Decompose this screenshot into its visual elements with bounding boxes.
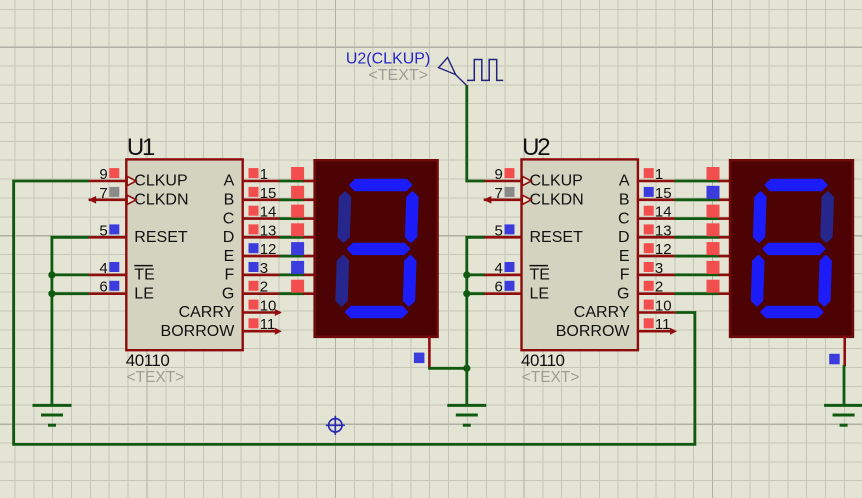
pin 1 state indicator (U2) [644, 168, 654, 178]
pin 5 stub (U1 left) [89, 236, 128, 239]
svg-text:LE: LE [134, 285, 154, 302]
wire pin 14 to display segment (U2) [674, 217, 719, 220]
pin 2 stub (U2 right) [637, 292, 676, 295]
IC U2 40110 counter [522, 159, 638, 350]
wire: U2 display common to ground [843, 365, 846, 405]
pin 6 stub (U2 left) [484, 292, 523, 295]
display pin stub row 12 (U1) [303, 255, 316, 258]
pin 7 stub (U1 left) [89, 199, 128, 202]
svg-text:TE: TE [530, 267, 550, 284]
svg-text:C: C [618, 210, 630, 227]
clock generator U2(CLKUP) symbol [439, 58, 456, 75]
pin 12 state indicator (U1) [249, 243, 259, 253]
pin 2 state indicator (U1) [249, 281, 259, 291]
wire: U1 RESET/TE/LE ground bus [52, 237, 89, 405]
svg-text:CLKDN: CLKDN [530, 192, 584, 209]
segment g (U1 digit 3) [349, 244, 409, 254]
junction display common [463, 365, 470, 372]
pin 13 state indicator (U1) [249, 224, 259, 234]
svg-text:11: 11 [260, 316, 276, 333]
junction U2 TE [463, 271, 470, 278]
svg-text:15: 15 [260, 185, 277, 202]
display pin stub row 13 (U2) [719, 236, 732, 239]
svg-text:6: 6 [99, 279, 107, 296]
pin 15 state indicator (U1) [249, 187, 259, 197]
svg-text:4: 4 [495, 260, 503, 277]
display pin indicator row 3 (U2) [707, 261, 720, 274]
junction U2 LE [463, 290, 470, 297]
svg-text:B: B [619, 192, 630, 209]
svg-text:13: 13 [655, 222, 672, 239]
svg-text:40110: 40110 [521, 351, 565, 370]
svg-text:2: 2 [260, 279, 268, 296]
pin 13 state indicator (U2) [644, 224, 654, 234]
pin 7 stub (U2 left) [484, 199, 523, 202]
svg-text:13: 13 [260, 222, 277, 239]
pin 4 stub (U2 left) [484, 274, 523, 277]
pin 4 state indicator (U2) [505, 262, 515, 272]
pin 11 state indicator (U1) [249, 318, 259, 328]
display pin stub row 3 (U2) [719, 274, 732, 277]
display pin indicator row 13 (U2) [707, 223, 720, 236]
display pin indicator row 15 (U2) [707, 186, 720, 199]
indicator U1 display common [414, 353, 425, 364]
display pin indicator row 14 (U1) [291, 205, 304, 218]
svg-text:RESET: RESET [530, 229, 584, 246]
display pin stub row 1 (U1) [303, 180, 316, 183]
pin 3 stub (U1 right) [242, 274, 281, 277]
svg-text:CARRY: CARRY [179, 304, 235, 321]
indicator U2 display common [829, 354, 840, 365]
clock waveform icon [467, 60, 503, 81]
display pin indicator row 2 (U2) [707, 280, 720, 293]
display pin indicator row 1 (U1) [291, 167, 304, 180]
svg-text:14: 14 [260, 204, 277, 221]
svg-text:9: 9 [495, 166, 503, 183]
wire pin 15 to display segment (U1) [279, 198, 304, 201]
segment b (U1 digit 3) [406, 193, 417, 242]
svg-text:15: 15 [655, 185, 672, 202]
wire pin 14 to display segment (U1) [279, 217, 304, 220]
svg-text:G: G [222, 285, 234, 302]
svg-text:3: 3 [655, 260, 663, 277]
wire: U1 display common cathode stub [428, 336, 431, 369]
clock input marker CLKUP (U1) [127, 176, 136, 185]
svg-text:1: 1 [655, 166, 663, 183]
svg-text:2: 2 [655, 279, 663, 296]
pin 1 stub (U2 right) [637, 180, 676, 183]
pin 15 stub (U1 right) [242, 199, 281, 202]
svg-text:14: 14 [655, 204, 672, 221]
svg-text:10: 10 [260, 298, 277, 315]
pin 6 state indicator (U2) [505, 281, 515, 291]
svg-text:6: 6 [495, 279, 503, 296]
svg-text:3: 3 [260, 260, 268, 277]
segment c (U2 digit 6) [820, 256, 831, 305]
U1 pin 10 unconnected arrow [275, 309, 282, 316]
wire pin 13 to display segment (U1) [279, 236, 304, 239]
wire: U2 TE branch [467, 273, 485, 276]
pin 11 state indicator (U2) [644, 318, 654, 328]
segment d (U2 digit 6) [762, 307, 822, 317]
segment b (U2 digit 6) [822, 193, 833, 242]
svg-text:RESET: RESET [134, 229, 188, 246]
junction U1 TE [48, 271, 55, 278]
pin 3 state indicator (U2) [644, 262, 654, 272]
display pin stub row 14 (U2) [719, 217, 732, 220]
pin 9 state indicator (U2) [505, 168, 515, 178]
wire: clock to U2 CLKUP [467, 85, 485, 181]
display pin indicator row 12 (U2) [707, 242, 720, 255]
svg-text:1: 1 [260, 166, 268, 183]
pin 2 state indicator (U2) [644, 281, 654, 291]
pin 1 stub (U1 right) [242, 180, 281, 183]
display pin indicator row 13 (U1) [291, 223, 304, 236]
IC U1 40110 counter [126, 159, 242, 350]
svg-text:D: D [618, 229, 630, 246]
wire pin 3 to display segment (U1) [279, 273, 304, 276]
svg-text:G: G [617, 285, 629, 302]
wire pin 13 to display segment (U2) [674, 236, 719, 239]
pin 14 stub (U2 right) [637, 217, 676, 220]
display pin stub row 1 (U2) [719, 180, 732, 183]
svg-text:<TEXT>: <TEXT> [522, 369, 580, 386]
display pin stub row 12 (U2) [719, 255, 732, 258]
svg-text:TE: TE [134, 267, 154, 284]
pin 14 state indicator (U2) [644, 206, 654, 216]
pin 10 stub (U2 right) [637, 311, 676, 314]
pin 5 stub (U2 left) [484, 236, 523, 239]
wire: U1 TE branch [52, 273, 89, 276]
pin 14 state indicator (U1) [249, 206, 259, 216]
display pin stub row 3 (U1) [303, 274, 316, 277]
pin 7 unconnected arrow (U1) [88, 196, 96, 204]
display pin indicator row 15 (U1) [291, 186, 304, 199]
pin 14 stub (U1 right) [242, 217, 281, 220]
U2 pin 11 unconnected arrow [670, 328, 677, 335]
pin 12 stub (U1 right) [242, 255, 281, 258]
display pin stub row 15 (U1) [303, 199, 316, 202]
svg-text:CLKUP: CLKUP [530, 173, 583, 190]
svg-text:U1: U1 [127, 134, 155, 161]
pin 15 stub (U2 right) [637, 199, 676, 202]
pin 1 state indicator (U1) [249, 168, 259, 178]
wire pin 2 to display segment (U2) [674, 292, 719, 295]
wire pin 1 to display segment (U1) [279, 180, 304, 183]
svg-text:11: 11 [655, 316, 671, 333]
segment a (U1 digit 3) [351, 180, 411, 190]
svg-text:CLKUP: CLKUP [134, 173, 187, 190]
display pin indicator row 1 (U2) [707, 167, 720, 180]
svg-text:E: E [224, 248, 235, 265]
svg-text:CLKDN: CLKDN [134, 192, 188, 209]
segment f (U1 digit 3) [339, 193, 350, 242]
pin 7 state indicator (U1) [109, 187, 119, 197]
ground mid [447, 405, 486, 425]
pin 13 stub (U1 right) [242, 236, 281, 239]
svg-text:A: A [619, 173, 630, 190]
display pin indicator row 2 (U1) [291, 280, 304, 293]
pin 11 stub (U2 right) [637, 330, 675, 333]
pin 6 stub (U1 left) [89, 292, 128, 295]
display pin indicator row 12 (U1) [291, 242, 304, 255]
svg-text:LE: LE [530, 285, 550, 302]
pin 9 stub (U1 left) [89, 180, 128, 183]
pin 5 state indicator (U1) [109, 224, 119, 234]
U1 pin 11 unconnected arrow [275, 328, 282, 335]
wire pin 12 to display segment (U1) [279, 255, 304, 258]
wire: U2 CARRY to U1 CLKUP feedback loop [14, 181, 695, 444]
svg-text:<TEXT>: <TEXT> [368, 67, 428, 84]
wire pin 2 to display segment (U1) [279, 292, 304, 295]
svg-text:40110: 40110 [126, 351, 170, 370]
display pin stub row 2 (U1) [303, 292, 316, 295]
svg-text:<TEXT>: <TEXT> [127, 369, 185, 386]
pin 15 state indicator (U2) [644, 187, 654, 197]
wire: U2 RESET/TE/LE ground bus [467, 237, 485, 405]
wire: U2 display common cathode stub [843, 336, 846, 367]
pin 2 stub (U1 right) [242, 292, 281, 295]
svg-text:9: 9 [99, 166, 107, 183]
svg-text:12: 12 [260, 241, 277, 258]
svg-text:7: 7 [99, 185, 107, 202]
pin 12 stub (U2 right) [637, 255, 676, 258]
segment g (U2 digit 6) [764, 244, 824, 254]
segment f (U2 digit 6) [754, 193, 765, 242]
svg-text:D: D [223, 229, 235, 246]
clock input marker CLKDN (U1) [127, 195, 136, 204]
wire: U1 display common to ground bus [428, 367, 467, 370]
segment c (U1 digit 3) [404, 256, 415, 305]
junction U1 LE [48, 290, 55, 297]
pin 9 state indicator (U1) [109, 168, 119, 178]
clock input marker CLKUP (U2) [522, 176, 531, 185]
pin 10 state indicator (U2) [644, 300, 654, 310]
svg-text:12: 12 [655, 241, 672, 258]
origin / reference marker [326, 416, 345, 435]
svg-text:U2(CLKUP): U2(CLKUP) [346, 51, 430, 68]
svg-text:7: 7 [495, 185, 503, 202]
wire: U1 LE branch [52, 292, 89, 295]
segment e (U2 digit 6) [752, 256, 763, 305]
display pin stub row 14 (U1) [303, 217, 316, 220]
pin 11 stub (U1 right) [242, 330, 280, 333]
svg-text:F: F [225, 267, 235, 284]
wire: U2 LE branch [467, 292, 485, 295]
7-seg display U1 digit 3 [315, 160, 438, 336]
pin 12 state indicator (U2) [644, 243, 654, 253]
pin 4 stub (U1 left) [89, 274, 128, 277]
clock input marker CLKDN (U2) [522, 195, 531, 204]
display pin stub row 15 (U2) [719, 199, 732, 202]
wire pin 12 to display segment (U2) [674, 255, 719, 258]
pin 10 stub (U1 right) [242, 311, 281, 314]
ground right [824, 405, 862, 425]
svg-text:5: 5 [99, 222, 107, 239]
svg-text:F: F [620, 267, 630, 284]
svg-text:BORROW: BORROW [556, 323, 631, 340]
ground U1 [33, 405, 72, 425]
clock generator tail [456, 75, 467, 86]
segment a (U2 digit 6) [766, 180, 826, 190]
svg-text:B: B [224, 192, 235, 209]
pin 4 state indicator (U1) [109, 262, 119, 272]
svg-text:5: 5 [495, 222, 503, 239]
svg-text:E: E [619, 248, 630, 265]
svg-text:4: 4 [99, 260, 107, 277]
svg-text:A: A [224, 173, 235, 190]
pin 3 state indicator (U1) [249, 262, 259, 272]
pin 7 unconnected arrow (U2) [483, 196, 491, 204]
pin 9 stub (U2 left) [484, 180, 523, 183]
segment d (U1 digit 3) [346, 307, 406, 317]
display pin stub row 2 (U2) [719, 292, 732, 295]
display pin indicator row 3 (U1) [291, 261, 304, 274]
pin 10 state indicator (U1) [249, 300, 259, 310]
pin 3 stub (U2 right) [637, 274, 676, 277]
svg-text:U2: U2 [522, 134, 550, 161]
wire pin 1 to display segment (U2) [674, 180, 719, 183]
segment e (U1 digit 3) [337, 256, 348, 305]
pin 13 stub (U2 right) [637, 236, 676, 239]
svg-text:CARRY: CARRY [574, 304, 630, 321]
display pin stub row 13 (U1) [303, 236, 316, 239]
wire pin 15 to display segment (U2) [674, 198, 719, 201]
display pin indicator row 14 (U2) [707, 205, 720, 218]
pin 6 state indicator (U1) [109, 281, 119, 291]
svg-text:C: C [223, 210, 235, 227]
svg-text:10: 10 [655, 298, 672, 315]
wire pin 3 to display segment (U2) [674, 273, 719, 276]
pin 5 state indicator (U2) [505, 224, 515, 234]
7-seg display U2 digit 6 [730, 160, 853, 336]
svg-text:BORROW: BORROW [161, 323, 236, 340]
pin 7 state indicator (U2) [505, 187, 515, 197]
